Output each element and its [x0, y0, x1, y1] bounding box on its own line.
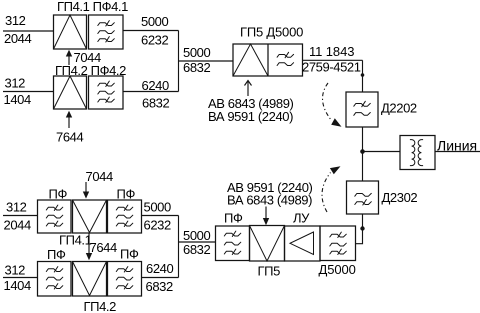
carrier arrow into GP4.1 [66, 50, 72, 65]
wire row4 input 312/1404 [3, 277, 38, 279]
filter D2202 box [346, 92, 378, 127]
svg-text:312: 312 [5, 13, 26, 28]
bandpass filter PF4.1 box [89, 15, 124, 49]
converter GP5 with filter D5000 block [233, 44, 303, 76]
wire group output 5000/6832 [179, 60, 234, 62]
svg-text:ПФ: ПФ [117, 187, 136, 202]
wire row1 input 312/2044 [3, 30, 54, 32]
converter GP4.2 box with triangle [54, 76, 87, 109]
svg-text:ПФ: ПФ [224, 211, 243, 226]
svg-text:6832: 6832 [142, 96, 169, 111]
svg-text:2044: 2044 [4, 218, 31, 233]
wire row4 output [142, 277, 179, 279]
line amplifier LU box [285, 226, 321, 261]
wire row3 input 312/2044 [3, 215, 38, 217]
combiner wire top group [178, 31, 180, 92]
svg-text:5000: 5000 [144, 200, 171, 215]
svg-text:1404: 1404 [4, 92, 31, 107]
svg-text:1404: 1404 [4, 278, 31, 293]
svg-text:2759-4521: 2759-4521 [302, 60, 361, 75]
svg-text:ВА 6843 (4989): ВА 6843 (4989) [227, 193, 312, 208]
bandpass filter box row4 left [38, 262, 72, 297]
svg-text:6232: 6232 [144, 218, 171, 233]
svg-text:6240: 6240 [142, 78, 169, 93]
svg-text:ГП4.2: ГП4.2 [84, 299, 117, 313]
wire row2 output [123, 91, 179, 93]
converter GP4.2 receive box with V triangle [73, 262, 107, 297]
svg-text:Д2302: Д2302 [382, 190, 418, 205]
svg-text:5000: 5000 [141, 14, 168, 29]
svg-text:7644: 7644 [90, 240, 117, 255]
bandpass filter box row3 left [38, 200, 72, 233]
converter GP5 receive box with V triangle [250, 226, 285, 262]
svg-text:312: 312 [5, 76, 26, 91]
bandpass filter box row3 right [108, 200, 142, 233]
wire bus down to D2202 [362, 60, 364, 92]
carrier arrow into GP4.1 (receive) [83, 182, 89, 199]
svg-text:ГП5 Д5000: ГП5 Д5000 [240, 25, 303, 40]
wire to line [435, 151, 480, 153]
svg-text:ЛУ: ЛУ [293, 211, 310, 226]
line transformer box [400, 136, 435, 170]
carrier arrow into GP4.2 [66, 111, 72, 128]
wire bus D2202 to D2302 [362, 127, 364, 181]
transmit direction arc arrow [323, 83, 342, 127]
converter GP4.1 receive box with V triangle [73, 200, 107, 233]
svg-text:312: 312 [6, 200, 27, 215]
svg-text:5000: 5000 [183, 45, 210, 60]
junction dot lower [360, 226, 364, 230]
svg-text:6232: 6232 [141, 33, 168, 48]
carrier arrow into GP4.2 (receive) [86, 234, 92, 261]
svg-text:Д5000: Д5000 [319, 262, 356, 277]
wire GP5 block output [303, 59, 363, 61]
junction dot upper [361, 73, 365, 77]
bandpass filter box receive chain [216, 226, 250, 261]
receive direction arc arrow [322, 166, 340, 212]
wire group input 5000/6832 (receive) [179, 241, 216, 243]
wire row3 output [142, 215, 179, 217]
svg-text:7044: 7044 [86, 169, 113, 184]
combiner wire bottom group [178, 216, 180, 278]
junction dot middle [360, 149, 365, 154]
filter D2302 box [347, 181, 379, 214]
svg-text:ПФ: ПФ [49, 187, 68, 202]
svg-text:11 1843: 11 1843 [309, 44, 354, 59]
svg-text:ПФ: ПФ [47, 247, 66, 262]
svg-text:ГП4.1 ПФ4.1: ГП4.1 ПФ4.1 [57, 0, 128, 14]
svg-text:6832: 6832 [146, 279, 173, 294]
svg-text:ПФ: ПФ [120, 247, 139, 262]
svg-text:312: 312 [5, 263, 26, 278]
filter D5000 receive box [320, 226, 356, 261]
bandpass filter box row4 right [108, 262, 142, 297]
wire row2 input 312/1404 [3, 91, 54, 93]
svg-text:6240: 6240 [146, 261, 173, 276]
svg-text:ГП4.1: ГП4.1 [59, 233, 92, 248]
carrier arrow into GP5 (receive) [263, 207, 269, 226]
svg-text:6832: 6832 [183, 60, 210, 75]
carrier arrow into GP5 (open head) [245, 81, 252, 97]
svg-text:ВА 9591 (2240): ВА 9591 (2240) [208, 109, 293, 124]
svg-text:7644: 7644 [56, 130, 83, 145]
wire row1 output [123, 30, 179, 32]
svg-text:5000: 5000 [183, 228, 210, 243]
converter GP4.1 box with triangle [54, 15, 87, 49]
svg-text:ГП5: ГП5 [258, 264, 281, 279]
wire branch to line transformer [363, 151, 401, 153]
svg-text:6832: 6832 [183, 242, 210, 257]
svg-text:Д2202: Д2202 [381, 101, 417, 116]
wire bus D2302 down to receive chain [356, 214, 363, 244]
bandpass filter PF4.2 box [89, 76, 124, 109]
svg-text:2044: 2044 [4, 31, 31, 46]
